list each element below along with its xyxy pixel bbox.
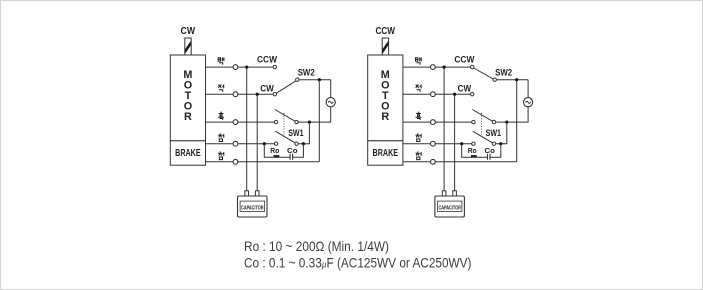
node CCW terminal [471, 65, 474, 68]
svg-text:Co : 0.1 ~ 0.33µF (AC125WV or: Co : 0.1 ~ 0.33µF (AC125WV or AC250WV) [244, 256, 472, 271]
switch SW1 pole1 arm [275, 110, 295, 122]
capacitor C2 body [435, 196, 465, 217]
switch SW1 pole2 right terminal [492, 142, 495, 145]
SW1 gang link [480, 113, 482, 135]
junction SW2/brake line [318, 78, 321, 81]
switch SW2 fixed terminal [493, 78, 496, 81]
shaft rotation stripe [185, 41, 191, 54]
lead2 color label [218, 85, 224, 92]
switch SW1 pole1 right terminal [295, 120, 298, 123]
lead2 color label [416, 85, 422, 92]
switch SW1 pole2 left terminal [472, 142, 475, 145]
wire pole1 to pole2 [496, 122, 507, 144]
switch SW2 arm [276, 81, 296, 93]
lead3 color label [416, 112, 422, 120]
junction lead1/busA [245, 66, 248, 69]
wire lead1 white [206, 66, 274, 68]
wire lead3 black common [403, 121, 472, 123]
svg-text:SW1: SW1 [486, 128, 501, 138]
lead2 connector [431, 92, 436, 97]
shaft rotation stripe [383, 41, 389, 54]
svg-text:CAPACITOR: CAPACITOR [438, 205, 461, 211]
lead5 connector [233, 159, 238, 164]
lead2 connector [233, 92, 238, 97]
junction lead2/busB [256, 93, 259, 96]
wire snubber loop [462, 144, 501, 158]
node CW terminal [273, 93, 276, 96]
capacitor label frame [240, 201, 264, 211]
wire SW2 to source [496, 79, 528, 81]
motor shaft [185, 38, 191, 55]
capacitor label frame [438, 201, 462, 211]
svg-text:CW: CW [458, 84, 472, 95]
left diagram: CW rotation wiring [170, 26, 335, 217]
AC source G1 [326, 98, 335, 107]
lead4 color label [416, 134, 422, 142]
wire pole1 to pole2 [298, 122, 309, 144]
AC source G2 [524, 98, 533, 107]
wire capacitor bus B [256, 94, 258, 191]
svg-text:Ro: Ro [270, 146, 280, 155]
junction SW2/brake line [515, 78, 518, 81]
svg-text:CW: CW [260, 84, 274, 95]
switch SW1 pole1 left terminal [472, 120, 475, 123]
svg-text:SW2: SW2 [298, 68, 315, 78]
junction pole1 right [308, 121, 311, 124]
svg-text:CCW: CCW [257, 55, 277, 66]
svg-text:CW: CW [181, 26, 196, 37]
lead4 connector [233, 141, 238, 146]
wire SW2 junction to lead5 [318, 80, 320, 162]
switch SW1 pole1 left terminal [274, 120, 277, 123]
wire lead5 brake blue [403, 161, 517, 163]
svg-text:SW2: SW2 [495, 68, 512, 78]
switch SW2 fixed terminal [296, 78, 299, 81]
switch SW1 pole1 right terminal [492, 120, 495, 123]
resistor Ro [471, 155, 477, 158]
motor M2 body [368, 55, 403, 141]
lead4 color label [218, 134, 224, 142]
lead5 color label [218, 152, 224, 160]
wire capacitor bus B [454, 94, 456, 191]
wire lead4 brake blue [403, 143, 472, 145]
wire lead4 brake blue [206, 143, 275, 145]
junction lead4/snubber [460, 142, 463, 145]
SW1 gang link [283, 113, 285, 135]
switch SW2 arm [474, 68, 494, 79]
capacitor terminal tab B [255, 191, 259, 196]
lead5 connector [431, 159, 436, 164]
right diagram: CCW rotation wiring [368, 26, 533, 217]
switch SW1 pole2 left terminal [274, 142, 277, 145]
wire lead2 red [206, 93, 274, 95]
lead3 color label [218, 112, 224, 120]
junction pole2 right [499, 142, 502, 145]
motor M1 body [170, 55, 205, 141]
wire source drop [496, 80, 528, 122]
lead3 connector [233, 120, 238, 125]
svg-text:CAPACITOR: CAPACITOR [241, 205, 264, 211]
capacitor terminal tab B [453, 191, 457, 196]
lead4 connector [431, 141, 436, 146]
wire lead3 black common [206, 121, 275, 123]
svg-text:CCW: CCW [454, 55, 474, 66]
wire lead2 red [403, 93, 471, 95]
switch SW1 pole2 right terminal [295, 142, 298, 145]
capacitor terminal tab A [442, 191, 446, 196]
brake unit M1 [170, 141, 205, 165]
svg-text:Co: Co [287, 146, 298, 155]
junction pole2 right [302, 142, 305, 145]
svg-text:SW1: SW1 [288, 128, 303, 138]
wire SW2 junction to lead5 [516, 80, 518, 162]
capacitor Co [290, 154, 293, 160]
lead1 color label [416, 57, 422, 64]
wire capacitor bus A [246, 67, 248, 191]
svg-text:BRAKE: BRAKE [373, 147, 399, 159]
wire snubber loop [264, 144, 303, 158]
junction pole1 right [505, 121, 508, 124]
lead1 color label [218, 57, 224, 64]
switch SW1 pole2 arm [473, 131, 493, 143]
resistor Ro [274, 155, 280, 158]
svg-text:CCW: CCW [375, 26, 395, 37]
svg-text:Ro: Ro [468, 146, 478, 155]
junction lead4/snubber [263, 142, 266, 145]
brake unit M2 [368, 141, 403, 165]
capacitor terminal tab A [245, 191, 249, 196]
junction lead1/busA [443, 66, 446, 69]
lead1 connector [233, 65, 238, 70]
junction lead2/busB [453, 93, 456, 96]
switch SW1 pole2 arm [275, 131, 295, 143]
wire source drop [298, 80, 331, 122]
svg-text:MOTOR: MOTOR [183, 69, 192, 123]
node CW terminal [471, 93, 474, 96]
wire capacitor bus A [443, 67, 445, 191]
motor shaft [382, 38, 388, 55]
switch SW1 pole1 arm [472, 110, 492, 122]
capacitor C1 body [238, 196, 268, 217]
lead3 connector [431, 120, 436, 125]
wire SW2 to source [299, 79, 331, 81]
svg-text:MOTOR: MOTOR [381, 69, 390, 123]
capacitor Co [488, 154, 491, 160]
lead1 connector [431, 65, 436, 70]
svg-text:Ro : 10 ~ 200Ω (Min. 1/4W): Ro : 10 ~ 200Ω (Min. 1/4W) [244, 239, 389, 254]
wire lead1 white [403, 66, 471, 68]
svg-text:BRAKE: BRAKE [175, 147, 201, 159]
wire lead5 brake blue [206, 161, 320, 163]
node CCW terminal [273, 65, 276, 68]
lead5 color label [416, 152, 422, 160]
svg-text:Co: Co [484, 146, 495, 155]
